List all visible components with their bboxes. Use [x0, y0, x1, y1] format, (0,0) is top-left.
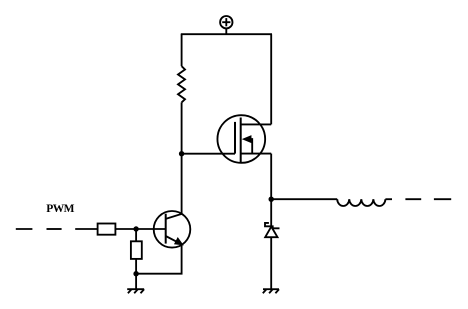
wire dashed input segment 2	[47, 228, 62, 230]
wire node E to ground stub	[135, 274, 137, 290]
inductor L1	[337, 199, 385, 206]
resistor R3 (pull-down)	[131, 241, 142, 259]
wire R2 to node B	[115, 228, 136, 230]
wire L1 lead out	[385, 198, 392, 200]
wire dashed input segment 1	[16, 228, 33, 230]
wire R1 to rail	[181, 34, 183, 66]
power supply V+ symbol	[220, 16, 232, 34]
wire Q1 collector to node A	[181, 154, 183, 214]
wire D1 to ground stub	[270, 237, 272, 289]
node OUT junction	[269, 197, 274, 202]
resistor R1 (pull-up zigzag)	[178, 66, 185, 102]
transistor M1 (N-MOSFET)	[217, 115, 271, 163]
wire M1 source to node OUT	[270, 154, 272, 200]
ground (left)	[127, 289, 144, 293]
wire node A up to R1	[181, 102, 183, 153]
svg-text:PWM: PWM	[46, 203, 74, 215]
wire input lead to R2	[75, 228, 97, 230]
resistor R2 (series base resistor)	[98, 224, 116, 235]
wire node OUT to D1	[270, 199, 272, 226]
wire node B to Q1 base	[136, 228, 166, 230]
wire node A to M1 gate	[182, 153, 235, 155]
wire dashed output segment 1	[405, 198, 421, 200]
node E junction	[133, 271, 138, 276]
diode D1 (zener)	[265, 223, 280, 237]
wire node E to Q1 emitter	[136, 244, 182, 273]
node B junction	[133, 226, 138, 231]
wire rail to M1 drain	[270, 34, 272, 124]
wire top rail	[181, 33, 272, 35]
transistor Q1 (NPN)	[154, 211, 191, 248]
wire dashed output segment 2	[434, 198, 451, 200]
node PWM label	[46, 203, 74, 215]
wire R3 to node E	[135, 259, 137, 274]
wire node B down to R3	[135, 229, 137, 241]
wire node OUT to L1	[271, 198, 337, 200]
ground (right)	[263, 289, 279, 293]
node A junction	[179, 151, 184, 156]
